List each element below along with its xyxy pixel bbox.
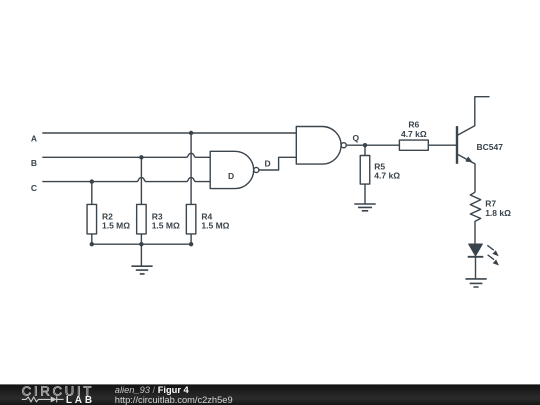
svg-text:1.5 MΩ: 1.5 MΩ	[152, 221, 180, 231]
svg-text:1.5 MΩ: 1.5 MΩ	[102, 221, 130, 231]
svg-text:Q: Q	[353, 133, 360, 143]
svg-text:4.7 kΩ: 4.7 kΩ	[401, 129, 427, 139]
svg-text:1.5 MΩ: 1.5 MΩ	[201, 221, 229, 231]
svg-text:D: D	[265, 158, 271, 168]
svg-text:4.7 kΩ: 4.7 kΩ	[374, 171, 400, 181]
svg-text:C: C	[31, 183, 37, 193]
svg-text:D: D	[228, 171, 234, 181]
svg-text:LAB: LAB	[66, 395, 95, 405]
svg-text:1.8 kΩ: 1.8 kΩ	[485, 208, 511, 218]
svg-text:R6: R6	[408, 120, 419, 130]
svg-text:http://circuitlab.com/c2zh5e9: http://circuitlab.com/c2zh5e9	[115, 395, 233, 405]
svg-text:BC547: BC547	[477, 142, 504, 152]
svg-text:alien_93 / Figur 4: alien_93 / Figur 4	[115, 385, 190, 395]
svg-text:A: A	[31, 133, 37, 143]
svg-text:B: B	[31, 158, 37, 168]
